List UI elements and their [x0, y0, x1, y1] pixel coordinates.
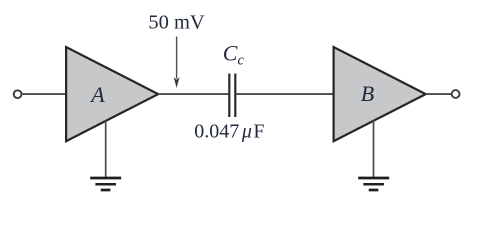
arrow to node	[176, 37, 178, 79]
wire capacitor to amplifier B	[236, 93, 334, 95]
wire A output to capacitor	[158, 93, 229, 95]
ground symbol A	[90, 178, 121, 190]
amplifier B	[334, 47, 426, 141]
capacitor C_c left plate	[228, 74, 230, 118]
input terminal	[14, 90, 22, 98]
ground wire A	[105, 121, 107, 178]
capacitor C_c right plate	[234, 74, 236, 118]
ground wire B	[373, 121, 375, 178]
wire input to amplifier A	[23, 93, 67, 95]
output terminal	[452, 90, 460, 98]
svg-text:0.047μF: 0.047μF	[194, 121, 264, 143]
svg-text:A: A	[89, 82, 105, 107]
ground symbol B	[358, 178, 389, 190]
amplifier A	[66, 47, 158, 141]
svg-text:Cc: Cc	[223, 40, 245, 68]
wire B output	[426, 93, 452, 95]
svg-text:50 mV: 50 mV	[148, 11, 205, 33]
svg-text:B: B	[361, 81, 374, 106]
